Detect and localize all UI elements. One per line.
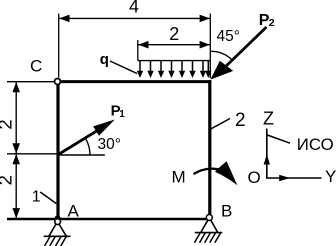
svg-text:C: C <box>30 57 42 76</box>
svg-text:ИСО: ИСО <box>297 135 334 154</box>
svg-text:4: 4 <box>129 0 139 16</box>
svg-text:O: O <box>248 168 261 187</box>
svg-text:30°: 30° <box>98 136 121 153</box>
svg-text:1: 1 <box>32 189 41 206</box>
svg-text:B: B <box>221 202 232 221</box>
svg-text:2: 2 <box>169 24 179 44</box>
svg-text:45°: 45° <box>217 28 240 45</box>
svg-text:2: 2 <box>269 17 275 29</box>
svg-text:1: 1 <box>119 109 125 120</box>
svg-text:A: A <box>68 202 80 221</box>
svg-text:Y: Y <box>325 167 336 186</box>
svg-text:q: q <box>100 51 109 68</box>
svg-text:2: 2 <box>0 175 16 185</box>
svg-text:M: M <box>172 168 186 187</box>
svg-text:2: 2 <box>235 110 246 131</box>
svg-text:Z: Z <box>263 109 274 129</box>
svg-text:2: 2 <box>0 119 16 129</box>
